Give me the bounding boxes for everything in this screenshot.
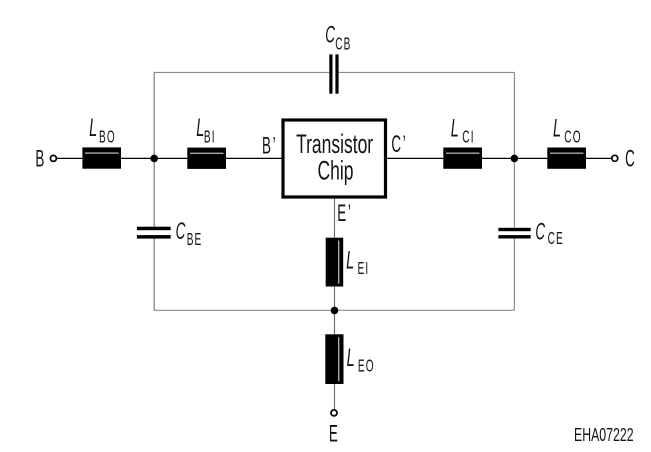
inductor L_BI [187,115,226,169]
terminal C [612,155,618,161]
svg-text:E’: E’ [337,200,351,227]
wire bottom rail [154,309,514,311]
wire L_CI to L_CO [482,157,547,159]
wire L_BI to chip [226,157,282,159]
svg-text:C: C [325,22,335,49]
svg-text:B’: B’ [262,133,276,160]
capacitor C_BE [137,218,202,250]
svg-text:B: B [35,146,44,173]
svg-text:L: L [553,116,561,143]
svg-text:BO: BO [99,128,116,148]
wire L_EO to E terminal [334,384,336,409]
wire node to L_EO [334,310,336,334]
svg-text:CO: CO [564,128,581,148]
wire left vertical upper [153,72,155,226]
node at emitter rail junction [331,307,339,315]
svg-text:L: L [89,115,97,142]
wire L_CO to C terminal [586,157,611,159]
svg-text:Chip: Chip [318,156,354,186]
node at B side junction [150,155,158,163]
svg-text:BE: BE [187,230,203,250]
terminal E [331,410,337,416]
svg-text:L: L [451,116,459,143]
wire right vertical upper [513,72,515,227]
inductor L_EI [326,238,370,287]
svg-text:C: C [535,219,545,246]
wire L_EI to bottom rail node [334,287,336,311]
svg-text:C’: C’ [391,131,405,158]
node at C side junction [511,155,519,163]
svg-text:L: L [196,115,204,142]
wire left vertical lower [153,239,155,311]
wire chip to L_CI [387,157,443,159]
svg-text:C: C [176,218,186,245]
wire B terminal to L_BO [57,157,82,159]
svg-text:CB: CB [335,35,351,55]
wire top loop horizontal left of C_CB [154,71,329,73]
inductor L_CO [547,116,586,169]
wire L_BO to L_BI [121,157,187,159]
inductor L_EO [325,334,374,384]
capacitor C_CE [498,219,563,250]
svg-text:EHA07222: EHA07222 [574,426,634,446]
svg-text:L: L [346,248,354,275]
svg-text:L: L [347,345,355,372]
svg-text:C: C [625,146,635,173]
wire top loop horizontal right of C_CB [339,71,515,73]
wire right vertical lower [513,239,515,311]
svg-text:Transistor: Transistor [296,129,373,159]
inductor L_CI [443,116,482,169]
svg-text:CE: CE [548,229,564,249]
transistor chip box U1 [283,120,386,197]
wire chip E' to L_EI [334,198,336,237]
capacitor C_CB [325,22,351,94]
inductor L_BO [82,115,121,168]
terminal B [50,155,56,161]
svg-text:BI: BI [204,127,216,147]
svg-text:CI: CI [462,128,474,148]
svg-text:EO: EO [358,357,375,377]
svg-text:E: E [329,421,338,448]
svg-text:EI: EI [358,259,370,279]
